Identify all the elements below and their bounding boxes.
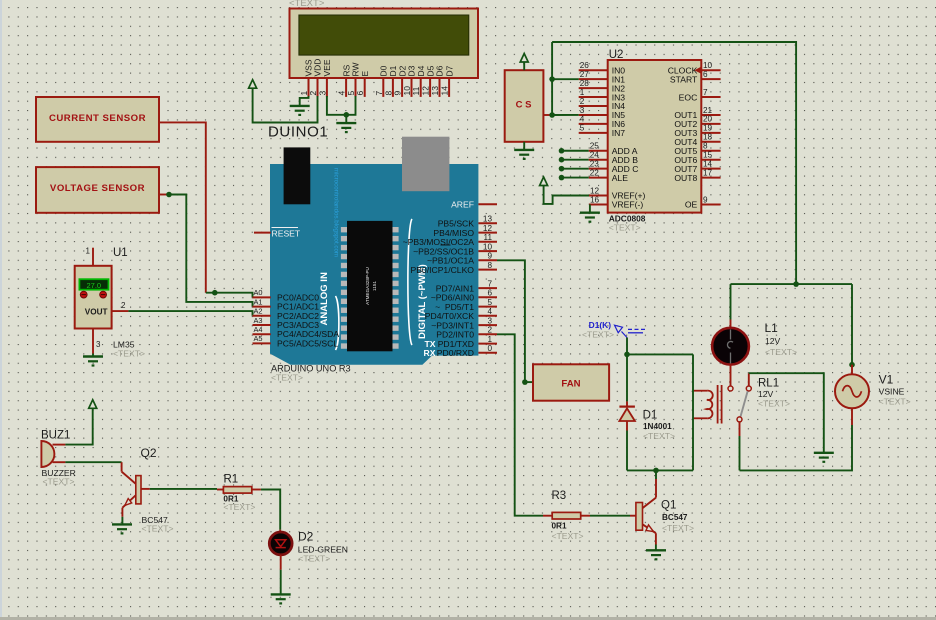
- svg-text:FAN: FAN: [561, 378, 580, 389]
- svg-text:<TEXT>: <TEXT>: [113, 349, 145, 359]
- wire LCD VDD to power: [253, 88, 318, 123]
- svg-text:1: 1: [86, 247, 91, 256]
- svg-text:microcontrolandos.blogspot.com: microcontrolandos.blogspot.com: [333, 168, 340, 257]
- svg-text:PD0/RXD: PD0/RXD: [437, 348, 474, 358]
- svg-text:DIGITAL (~PWM): DIGITAL (~PWM): [417, 264, 428, 339]
- svg-text:3: 3: [96, 340, 101, 349]
- wire relay common to ground rail: [749, 373, 824, 452]
- wire ADD C: [559, 166, 589, 172]
- svg-text:ATMEGA328P-PU: ATMEGA328P-PU: [365, 267, 370, 305]
- wire LCD VEE down: [327, 96, 344, 115]
- wire V1 bottom lead: [851, 408, 853, 425]
- arduino USB connector: [284, 147, 311, 204]
- wire VOLTAGE SENSOR stub (red): [159, 194, 169, 196]
- svg-text:A1: A1: [254, 297, 263, 306]
- svg-text:U2: U2: [609, 49, 624, 61]
- ground below Q2: [112, 524, 132, 533]
- svg-text:28: 28: [580, 79, 590, 88]
- svg-text:<TEXT>: <TEXT>: [643, 431, 675, 441]
- U1 pin 3: [93, 329, 101, 354]
- svg-text:16: 16: [590, 195, 600, 204]
- svg-text:12: 12: [483, 224, 493, 233]
- source V1 VSINE: [835, 374, 869, 408]
- wire rail to lamp L1: [730, 284, 732, 328]
- U1 pin 1: [86, 247, 93, 266]
- junction at FAN input: [522, 379, 533, 385]
- arduino power jack: [402, 137, 449, 192]
- svg-text:RX: RX: [424, 348, 436, 358]
- svg-text:ANALOG IN: ANALOG IN: [319, 272, 330, 325]
- svg-text:AREF: AREF: [451, 199, 474, 209]
- svg-text:27: 27: [580, 70, 590, 79]
- svg-text:A5: A5: [254, 334, 263, 343]
- svg-text:BUZ1: BUZ1: [41, 430, 70, 442]
- svg-text:11: 11: [484, 233, 493, 242]
- arduino RESET pin: [254, 228, 301, 239]
- svg-text:<TEXT>: <TEXT>: [223, 502, 255, 512]
- svg-text:<TEXT>: <TEXT>: [142, 524, 174, 534]
- svg-text:1151: 1151: [372, 281, 377, 291]
- svg-text:13: 13: [430, 86, 440, 96]
- wire lamp bottom lead: [730, 365, 732, 386]
- svg-text:12V: 12V: [765, 336, 781, 346]
- U2 right pins: [668, 61, 721, 210]
- svg-text:7: 7: [487, 279, 492, 288]
- power arrow at DUINO1 VDD: [249, 80, 257, 89]
- wire R1 to D2: [261, 490, 280, 530]
- svg-text:14: 14: [440, 86, 450, 96]
- wire probe to D1 node: [626, 338, 628, 355]
- svg-text:2: 2: [580, 97, 585, 106]
- svg-text:EOC: EOC: [679, 92, 698, 102]
- svg-text:12V: 12V: [758, 389, 774, 399]
- sensor U1 LM35 body: [75, 266, 112, 329]
- svg-text:D2: D2: [298, 530, 314, 544]
- lamp L1: [712, 328, 749, 365]
- svg-text:8: 8: [487, 261, 492, 270]
- wire to A0: [206, 293, 253, 298]
- svg-text:VOLTAGE SENSOR: VOLTAGE SENSOR: [50, 183, 145, 194]
- svg-text:VREF(-): VREF(-): [612, 200, 644, 210]
- svg-text:E: E: [360, 71, 370, 77]
- relay RL1 switch: [737, 386, 751, 422]
- svg-text:26: 26: [580, 61, 590, 70]
- svg-text:V1: V1: [879, 373, 894, 387]
- wire rail to V1: [851, 284, 853, 365]
- resistor R1: [217, 487, 261, 494]
- svg-text:9: 9: [487, 252, 492, 261]
- wire LCD VSS to ground: [300, 96, 309, 106]
- power arrow VREF+: [540, 177, 589, 204]
- svg-text:3: 3: [580, 106, 585, 115]
- svg-text:3: 3: [317, 91, 327, 96]
- svg-text:12: 12: [590, 186, 600, 195]
- svg-text:3: 3: [487, 316, 492, 325]
- svg-text:6: 6: [487, 289, 492, 298]
- buzzer pins: [53, 445, 66, 463]
- svg-text:L1: L1: [765, 321, 779, 335]
- svg-text:13: 13: [483, 215, 493, 224]
- relay contact lamp-side terminal: [728, 386, 733, 391]
- svg-text:<TEXT>: <TEXT>: [758, 399, 790, 409]
- wire CURRENT SENSOR to A0 (red): [159, 122, 206, 292]
- wire Q2 base to R1: [150, 488, 217, 490]
- svg-text:10: 10: [483, 242, 493, 251]
- junction top rail: [793, 281, 799, 287]
- svg-text:5: 5: [487, 298, 492, 307]
- arduino digital pins 0-13 with AREF: [403, 199, 497, 358]
- arduino ATMEGA328 chip: [341, 221, 399, 351]
- junction D1 top node: [624, 352, 630, 358]
- svg-text:VSINE: VSINE: [879, 387, 905, 397]
- svg-text:<TEXT>: <TEXT>: [298, 554, 330, 564]
- svg-text:CURRENT SENSOR: CURRENT SENSOR: [49, 113, 146, 124]
- svg-text:D7: D7: [444, 65, 454, 76]
- svg-text:2: 2: [487, 326, 492, 335]
- wire LCD RW down: [346, 96, 355, 115]
- svg-text:0: 0: [487, 344, 492, 353]
- wire ADD A: [559, 148, 589, 154]
- svg-text:<TEXT>: <TEXT>: [662, 523, 694, 533]
- svg-text:27.0: 27.0: [86, 281, 101, 290]
- arduino DUINO1 board body: [270, 164, 478, 365]
- svg-text:PC5/ADC5/SCL: PC5/ADC5/SCL: [277, 338, 338, 348]
- ground at VREF-: [580, 204, 600, 221]
- svg-text:A2: A2: [254, 307, 263, 316]
- IC U2 ADC0808 body: [608, 60, 702, 213]
- ground at relay common: [814, 453, 834, 462]
- subcircuit VOLTAGE SENSOR: [36, 167, 159, 213]
- wire D1 node to relay coil: [627, 353, 693, 355]
- wire left bottom rail: [627, 469, 693, 471]
- LCD module body: [290, 9, 479, 79]
- svg-text:4: 4: [580, 115, 585, 124]
- subcircuit FAN: [533, 364, 609, 400]
- svg-text:<TEXT>: <TEXT>: [582, 330, 614, 340]
- svg-text:Q1: Q1: [661, 500, 676, 512]
- U2 left pins: [579, 61, 646, 210]
- arduino analog pins A0-A5: [253, 288, 340, 348]
- svg-text:7: 7: [703, 88, 708, 97]
- ground below D2: [271, 594, 291, 603]
- wire ADD B: [559, 157, 589, 163]
- arduino analog bracket: [336, 296, 339, 350]
- svg-text:U1: U1: [113, 247, 128, 259]
- svg-text:<TEXT>: <TEXT>: [552, 531, 584, 541]
- svg-text:10: 10: [703, 61, 713, 70]
- junction at VOLTAGE SENSOR output: [166, 192, 172, 198]
- svg-text:5: 5: [580, 124, 585, 133]
- LCD pin name labels: [304, 59, 455, 77]
- svg-text:A0: A0: [254, 288, 263, 297]
- svg-text:23: 23: [590, 159, 600, 168]
- wire buzzer to power: [65, 408, 92, 444]
- LCD screen: [299, 15, 469, 55]
- subcircuit CURRENT SENSOR: [36, 97, 159, 142]
- wire arduino pin9 to FAN: [497, 260, 525, 382]
- svg-text:Q2: Q2: [141, 446, 157, 460]
- svg-text:17: 17: [703, 168, 713, 177]
- svg-text:20: 20: [703, 115, 713, 124]
- svg-text:<TEXT>: <TEXT>: [43, 477, 75, 487]
- junction Q1 collector node: [653, 468, 659, 474]
- svg-text:START: START: [670, 74, 698, 84]
- svg-text:1N4001: 1N4001: [643, 422, 672, 431]
- svg-text:7: 7: [374, 91, 384, 96]
- svg-text:BC547: BC547: [662, 513, 688, 522]
- svg-text:RESET: RESET: [272, 229, 301, 239]
- U1 pin 2 VOUT stub: [112, 301, 129, 311]
- svg-text:18: 18: [703, 133, 713, 142]
- svg-text:RL1: RL1: [758, 378, 779, 390]
- svg-text:<TEXT>: <TEXT>: [609, 223, 641, 233]
- svg-text:0R1: 0R1: [552, 522, 567, 531]
- diode D1 1N4001: [619, 354, 635, 470]
- svg-text:25: 25: [590, 142, 600, 151]
- ground below CS: [514, 142, 534, 159]
- svg-text:A4: A4: [254, 325, 263, 334]
- svg-text:A3: A3: [254, 316, 263, 325]
- power arrow above CS: [520, 54, 528, 71]
- svg-text:IN7: IN7: [612, 128, 626, 138]
- svg-text:DUINO1: DUINO1: [268, 124, 328, 141]
- ground below Q1: [646, 550, 666, 559]
- wire buzzer to Q2 collector: [65, 461, 121, 463]
- resistor R3: [543, 512, 590, 519]
- wire CS to IN5 junction (red stub): [543, 114, 552, 116]
- svg-text:D1(K): D1(K): [589, 320, 612, 330]
- svg-text:D1: D1: [643, 410, 658, 422]
- svg-text:D0: D0: [379, 65, 389, 76]
- svg-text:OUT8: OUT8: [674, 173, 697, 183]
- svg-text:VOUT: VOUT: [85, 308, 108, 317]
- voltage probe D1(K): [589, 320, 645, 338]
- window left edge: [0, 0, 2, 620]
- arduino digital bracket: [408, 219, 412, 345]
- svg-text:1: 1: [580, 88, 585, 97]
- buzzer BUZ1: [41, 441, 54, 467]
- svg-text:19: 19: [703, 124, 713, 133]
- LCD pins 1-14: [299, 78, 450, 97]
- svg-text:R1: R1: [224, 474, 239, 486]
- wire VOLTAGE SENSOR to A1: [169, 195, 253, 307]
- svg-text:OE: OE: [685, 200, 698, 210]
- svg-text:21: 21: [703, 106, 713, 115]
- relay RL1 coil: [693, 385, 722, 424]
- svg-text:C S: C S: [516, 100, 532, 111]
- svg-text:<TEXT>: <TEXT>: [879, 397, 911, 407]
- svg-text:2: 2: [121, 301, 126, 310]
- junction current-sensor wire to A0: [212, 290, 218, 296]
- wire IN1 node to lamp/V1 rail: [552, 42, 796, 284]
- svg-text:14: 14: [703, 159, 713, 168]
- svg-text:6: 6: [703, 70, 708, 79]
- svg-text:6: 6: [355, 91, 365, 96]
- ground below U1: [83, 354, 103, 366]
- svg-text:24: 24: [590, 151, 600, 160]
- junction IN5: [549, 112, 578, 118]
- wire top rail horizontal: [731, 283, 853, 285]
- junction above V1: [849, 362, 855, 375]
- svg-text:15: 15: [703, 151, 713, 160]
- svg-text:22: 22: [590, 168, 600, 177]
- svg-text:D6: D6: [435, 65, 445, 76]
- transistor Q2 BC547: [122, 462, 150, 524]
- wire U1 VOUT to A2: [128, 311, 252, 316]
- svg-text:4: 4: [487, 307, 492, 316]
- junction VEE/RW ground node: [344, 112, 350, 123]
- ground below LCD RW: [336, 123, 356, 132]
- svg-text:VEE: VEE: [322, 59, 332, 76]
- wire arduino pin2 to R3: [497, 334, 543, 515]
- wire CS node to IN1 node vertical: [551, 42, 553, 115]
- svg-text:<TEXT>: <TEXT>: [271, 373, 303, 383]
- window bottom edge: [0, 617, 936, 620]
- power arrow above buzzer: [89, 400, 97, 409]
- ground below LCD pin1: [290, 106, 310, 115]
- svg-text:9: 9: [703, 195, 708, 204]
- junction IN1: [549, 76, 578, 82]
- svg-text:<TEXT>: <TEXT>: [765, 347, 797, 357]
- svg-text:8: 8: [703, 142, 708, 151]
- wire R3 to Q1 base: [590, 515, 636, 517]
- svg-text:1: 1: [487, 335, 492, 344]
- svg-text:R3: R3: [552, 490, 567, 502]
- subcircuit CS: [505, 70, 544, 142]
- svg-text:PB0/ICP1/CLKO: PB0/ICP1/CLKO: [410, 265, 474, 275]
- wire relay NO contact down to rail: [739, 422, 741, 470]
- LED D2: [269, 530, 292, 594]
- wire right bottom rail: [740, 425, 853, 470]
- transistor Q1 BC547: [636, 470, 656, 550]
- svg-text:ALE: ALE: [612, 173, 629, 183]
- wire ALE: [559, 175, 589, 181]
- wire relay coil left vertical: [692, 354, 694, 470]
